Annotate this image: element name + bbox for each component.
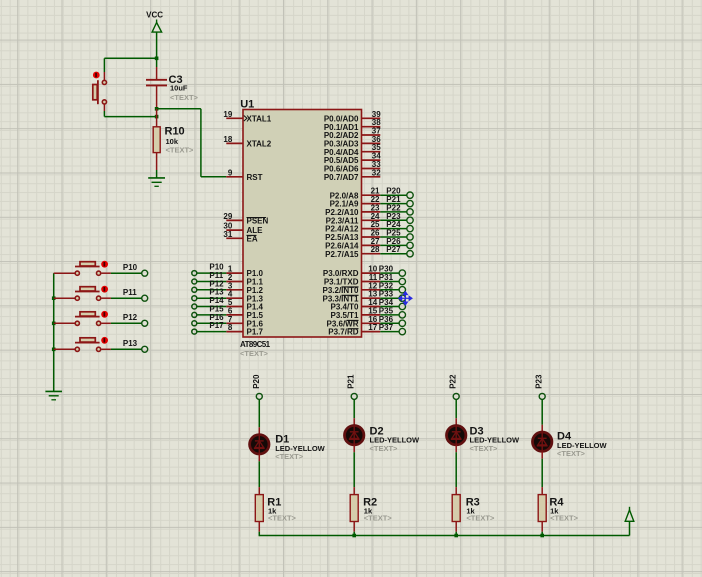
U1 pin 1 P1.0 [226,272,243,274]
U1 pin 23 P2.2/A10 [362,211,381,213]
resistor R10 body [153,127,160,153]
terminal P32 [399,287,405,293]
terminal P34 [399,303,405,309]
wire R2 to bus [353,522,355,532]
svg-text:P21: P21 [347,374,356,389]
svg-text:<TEXT>: <TEXT> [170,93,199,102]
terminal P22 circle [453,393,459,399]
svg-text:P12: P12 [123,313,138,322]
diode D4 (LED) [533,432,552,451]
svg-text:U1: U1 [240,99,254,111]
svg-text:P2.7/A15: P2.7/A15 [325,250,359,259]
terminal P24 [407,225,413,231]
U1 pin 4 P1.3 [226,297,243,299]
svg-text:R10: R10 [165,126,185,138]
svg-text:10uF: 10uF [170,84,188,93]
terminal P20 [407,192,413,198]
svg-text:P37: P37 [379,323,394,332]
diode D2 (LED) [345,426,364,445]
wire terminal to P1.2 [197,289,226,291]
power arrow bottom right [629,521,631,535]
U1 pin 37 P0.2/AD2 [362,134,381,136]
U1 pin 11 P3.1/TXD [362,281,381,283]
U1 pin 12 P3.2/INT0 [362,289,381,291]
U1 pin 6 P1.5 [226,314,243,316]
svg-text:RST: RST [247,173,263,182]
svg-text:<TEXT>: <TEXT> [166,146,195,155]
terminal P21 [407,200,413,206]
wire P23 to D4 [541,399,543,424]
wire terminal to P1.6 [197,322,226,324]
wire P2.2 to terminal [380,211,407,213]
wire P3.5 to terminal [380,314,399,316]
wire P2.5 to terminal [380,236,407,238]
bottom bus wire [259,535,629,537]
svg-text:<TEXT>: <TEXT> [275,452,304,461]
U1 pin 33 P0.6/AD6 [362,168,381,170]
wire terminal to P1.5 [197,314,226,316]
button P10 (bank) [54,272,75,274]
button P13 (bank) [52,348,56,352]
U1 pin 22 P2.1/A9 [362,203,381,205]
svg-text:VCC: VCC [146,10,163,19]
diode D1 (LED) [250,435,269,454]
svg-text:<TEXT>: <TEXT> [557,449,586,458]
svg-text:XTAL1: XTAL1 [247,114,272,123]
U1 pin 13 P3.3/INT1 [362,297,381,299]
terminal P14 (chip side) [192,304,197,309]
wire R1 to bus [258,522,260,532]
svg-text:<TEXT>: <TEXT> [370,444,399,453]
U1 pin 26 P2.5/A13 [362,236,381,238]
svg-text:P17: P17 [209,321,224,330]
U1 pin 38 P0.1/AD1 [362,126,381,128]
button P12 (bank) [52,322,56,326]
U1 pin 7 P1.6 [226,322,243,324]
U1 pin 15 P3.5/T1 [362,314,381,316]
U1 pin 17 P3.7/RD [362,331,381,333]
terminal P33 [399,295,405,301]
terminal P21 circle [351,393,357,399]
U1 pin 36 P0.3/AD3 [362,142,381,144]
terminal P30 [399,270,405,276]
resistor R10 bottom lead [156,153,158,170]
wire node C to RST [157,108,201,110]
button SW1 contacts [102,80,106,84]
terminal P11 (button side) [142,295,148,301]
button P11 (bank) [52,296,56,300]
terminal P26 [407,242,413,248]
U1 pin 18 XTAL2 [226,142,243,144]
svg-text:31: 31 [223,230,232,239]
power VCC arrow symbol [156,20,158,24]
node C junction [155,107,159,111]
bus junction D4 [540,534,544,538]
terminal P25 [407,234,413,240]
wire terminal to P1.7 [197,331,226,333]
U1 pin 16 P3.6/WR [362,322,381,324]
svg-text:P20: P20 [252,374,261,389]
svg-text:8: 8 [228,323,233,332]
wire P3.1 to terminal [380,281,399,283]
U1 pin 32 P0.7/AD7 [362,176,381,178]
wire P3.3 to terminal [380,297,399,299]
wire P2.7 to terminal [380,253,407,255]
wire terminal to P1.1 [197,281,226,283]
svg-text:P0.7/AD7: P0.7/AD7 [324,173,359,182]
wire P3.6 to terminal [380,322,399,324]
terminal P37 [399,328,405,334]
wire R4 to bus [541,522,543,532]
op-amp U1 body (AT89C51 chip) [243,110,362,338]
wire P22 to D3 [455,399,457,418]
wire P20 to D1 [258,399,260,427]
terminal P12 (button side) [142,320,148,326]
terminal P36 [399,320,405,326]
svg-text:<TEXT>: <TEXT> [470,444,499,453]
U1 pin 28 P2.7/A15 [362,253,381,255]
U1 pin 19 XTAL1 [226,117,243,119]
svg-text:AT89C51: AT89C51 [240,340,271,349]
ground symbol under R10 [148,177,165,179]
wire P3.2 to terminal [380,289,399,291]
capacitor C3 bottom lead [156,86,158,109]
svg-text:XTAL2: XTAL2 [247,140,272,149]
wire R3 to bus [455,522,457,532]
U1 pin 27 P2.6/A14 [362,244,381,246]
ground symbol under button bank [45,390,62,392]
terminal P31 [399,278,405,284]
wire terminal to P1.3 [197,297,226,299]
svg-text:P10: P10 [123,263,138,272]
svg-text:<TEXT>: <TEXT> [466,514,495,523]
button SW1 cap [93,85,97,100]
resistor R4 body [538,495,546,522]
U1 pin 25 P2.4/A12 [362,228,381,230]
U1 pin 5 P1.4 [226,306,243,308]
wire D4 to R4 [541,452,543,459]
svg-text:9: 9 [228,168,233,177]
bus junction D3 [454,534,458,538]
U1 pin 24 P2.3/A11 [362,219,381,221]
svg-text:<TEXT>: <TEXT> [550,514,579,523]
resistor R3 body [452,495,460,522]
wire P3.0 to terminal [380,272,399,274]
selection cursor (blue move arrows) [399,291,413,305]
capacitor C3 plates [146,79,167,81]
svg-text:32: 32 [372,168,381,177]
resistor R1 body [255,495,263,522]
svg-text:P11: P11 [123,288,137,297]
U1 pin 14 P3.4/T0 [362,306,381,308]
U1 pin 39 P0.0/AD0 [362,117,381,119]
terminal P13 (button side) [142,346,148,352]
svg-text:P23: P23 [535,374,544,389]
resistor R10 top lead [156,109,158,127]
U1 pin 30 ALE [226,229,243,231]
U1 pin 9 RST [226,176,243,178]
U1 pin 34 P0.5/AD5 [362,159,381,161]
terminal P15 (chip side) [192,312,197,317]
terminal P11 (chip side) [192,279,197,284]
U1 pin 10 P3.0/RXD [362,272,381,274]
U1 pin 2 P1.1 [226,281,243,283]
wire P2.0 to terminal [380,194,407,196]
U1 pin 21 P2.0/A8 [362,194,381,196]
U1 pin 29 PSEN [226,219,243,221]
wire node A to button top [104,57,156,59]
svg-text:19: 19 [223,110,232,119]
wire down to button top contact [103,58,105,72]
svg-text:28: 28 [371,245,380,254]
svg-text:<TEXT>: <TEXT> [364,514,393,523]
wire P2.1 to terminal [380,203,407,205]
node A junction [155,57,159,61]
wire terminal to P1.0 [197,272,226,274]
wire D3 to R3 [455,445,457,452]
capacitor C3 top lead [156,58,158,67]
terminal P10 (chip side) [192,271,197,276]
terminal P27 [407,251,413,257]
terminal P20 circle [256,393,262,399]
terminal P16 (chip side) [192,321,197,326]
left bus wire [53,273,55,391]
svg-text:<TEXT>: <TEXT> [268,514,297,523]
wire P2.6 to terminal [380,244,407,246]
wire D2 to R2 [353,445,355,452]
button SW1 red dot [93,72,100,79]
terminal P12 (chip side) [192,287,197,292]
terminal P23 circle [539,393,545,399]
wire P3.7 to terminal [380,331,399,333]
wire D1 to R1 [258,454,260,461]
svg-text:17: 17 [368,323,377,332]
U1 pin 31 EA [226,237,243,239]
terminal P17 (chip side) [192,329,197,334]
wire button bottom contact to node B [103,104,105,111]
svg-text:P13: P13 [123,339,138,348]
terminal P13 (chip side) [192,296,197,301]
wire P21 to D2 [353,399,355,418]
bus junction D2 [352,534,356,538]
U1 pin 8 P1.7 [226,331,243,333]
wire VCC to node A [156,32,158,58]
svg-text:18: 18 [223,135,232,144]
wire P3.4 to terminal [380,306,399,308]
wire terminal to P1.4 [197,306,226,308]
terminal P35 [399,312,405,318]
U1 pin 3 P1.2 [226,289,243,291]
svg-text:29: 29 [223,212,232,221]
resistor R2 body [350,495,358,522]
button SW1 lever [97,80,99,104]
node B junction [155,115,159,119]
svg-text:P22: P22 [449,374,458,389]
svg-text:P27: P27 [386,245,401,254]
terminal P22 [407,209,413,215]
wire P2.3 to terminal [380,219,407,221]
svg-text:P1.7: P1.7 [247,328,264,337]
terminal P10 (button side) [142,270,148,276]
U1 pin 35 P0.4/AD4 [362,151,381,153]
svg-text:<TEXT>: <TEXT> [240,349,269,358]
terminal P23 [407,217,413,223]
diode D3 (LED) [447,426,466,445]
wire P2.4 to terminal [380,228,407,230]
